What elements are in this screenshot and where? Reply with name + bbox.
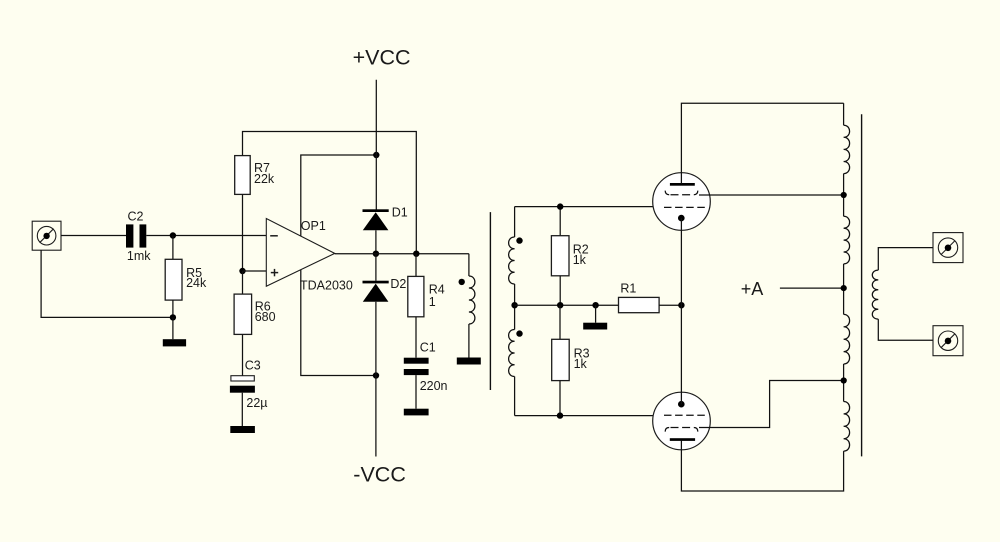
svg-text:22k: 22k: [254, 172, 275, 186]
node cathode rail: [678, 302, 684, 308]
svg-text:22µ: 22µ: [246, 396, 267, 410]
svg-text:D1: D1: [392, 206, 408, 220]
input connector X1: [32, 221, 61, 250]
svg-text:24k: 24k: [186, 276, 207, 290]
capacitor C1: [415, 317, 417, 358]
anode wire upper: [681, 103, 843, 183]
op-amp V+ pin: [301, 155, 377, 236]
output transformer primary: [843, 103, 845, 125]
output wire: [335, 253, 469, 255]
svg-text:D2: D2: [390, 277, 406, 291]
svg-text:TDA2030: TDA2030: [300, 278, 353, 292]
svg-text:OP1: OP1: [301, 219, 326, 233]
tube V2: [653, 392, 711, 450]
phase dot secondary upper: [516, 237, 522, 243]
wire R7 bottom to plus node: [242, 194, 244, 271]
capacitor C2: [126, 224, 146, 247]
svg-text:1k: 1k: [573, 253, 587, 267]
output connector lower: [933, 326, 963, 356]
grid rail upper: [515, 206, 654, 208]
svg-text:220n: 220n: [420, 379, 448, 393]
feedback wire R7 top to output: [243, 132, 417, 254]
svg-text:1k: 1k: [574, 357, 588, 371]
output transformer core: [861, 114, 863, 456]
resistor R5: [172, 236, 174, 260]
resistor R2: [559, 207, 561, 236]
output transformer secondary: [878, 248, 933, 271]
svg-text:-VCC: -VCC: [353, 463, 406, 487]
wire C2 to op-amp minus: [146, 235, 266, 237]
op-amp U1 triangle: [266, 219, 334, 287]
anode wire lower: [681, 441, 843, 492]
grid rail lower: [515, 415, 654, 417]
svg-text:R1: R1: [620, 282, 636, 296]
ground under C1: [415, 375, 417, 409]
wire plus node to op-amp: [243, 270, 267, 272]
ground under R5: [172, 317, 174, 339]
+A wire: [780, 287, 844, 289]
interstage secondary lower winding: [514, 305, 516, 329]
diode D1: [363, 209, 389, 212]
node output/D1: [373, 251, 379, 257]
ground under primary: [457, 358, 481, 365]
svg-text:+A: +A: [741, 279, 764, 299]
node R5 bottom: [170, 314, 176, 320]
svg-text:C2: C2: [128, 210, 144, 224]
resistor R7: [235, 156, 251, 195]
capacitor C3: [242, 334, 244, 375]
node C2/R5: [170, 232, 176, 238]
svg-text:680: 680: [255, 310, 276, 324]
svg-text:1: 1: [429, 295, 436, 309]
diode D2: [375, 254, 377, 281]
screen wire upper: [699, 194, 844, 196]
output connector upper: [933, 233, 963, 263]
plus sign: [271, 272, 278, 274]
svg-text:C3: C3: [245, 359, 261, 373]
minus sign: [270, 235, 278, 237]
phase dot secondary lower: [516, 330, 522, 336]
node plus input: [239, 268, 245, 274]
interstage secondary upper winding: [514, 207, 516, 237]
middle rail: [515, 304, 619, 306]
+VCC rail wire: [375, 80, 377, 210]
ground under C3: [241, 393, 243, 426]
wire input return: [41, 250, 173, 317]
svg-text:1mk: 1mk: [127, 249, 151, 263]
resistor R4: [415, 254, 417, 277]
resistor R6: [242, 271, 244, 294]
phase dot primary: [459, 279, 465, 285]
screen wire lower: [699, 381, 844, 428]
interstage transformer core: [489, 212, 491, 390]
wire input to C2: [61, 235, 126, 237]
resistor R1: [619, 297, 660, 312]
svg-text:+VCC: +VCC: [353, 45, 411, 69]
interstage transformer primary winding: [468, 254, 470, 276]
node output/R4: [413, 251, 419, 257]
op-amp V- pin: [301, 270, 376, 376]
ground near R1: [592, 302, 598, 308]
svg-text:C1: C1: [420, 340, 436, 354]
cathode wire: [680, 218, 682, 404]
tube V1: [653, 173, 711, 231]
resistor R3: [559, 305, 561, 339]
node center tap: [511, 302, 517, 308]
wire D2 to -VCC: [375, 302, 377, 457]
